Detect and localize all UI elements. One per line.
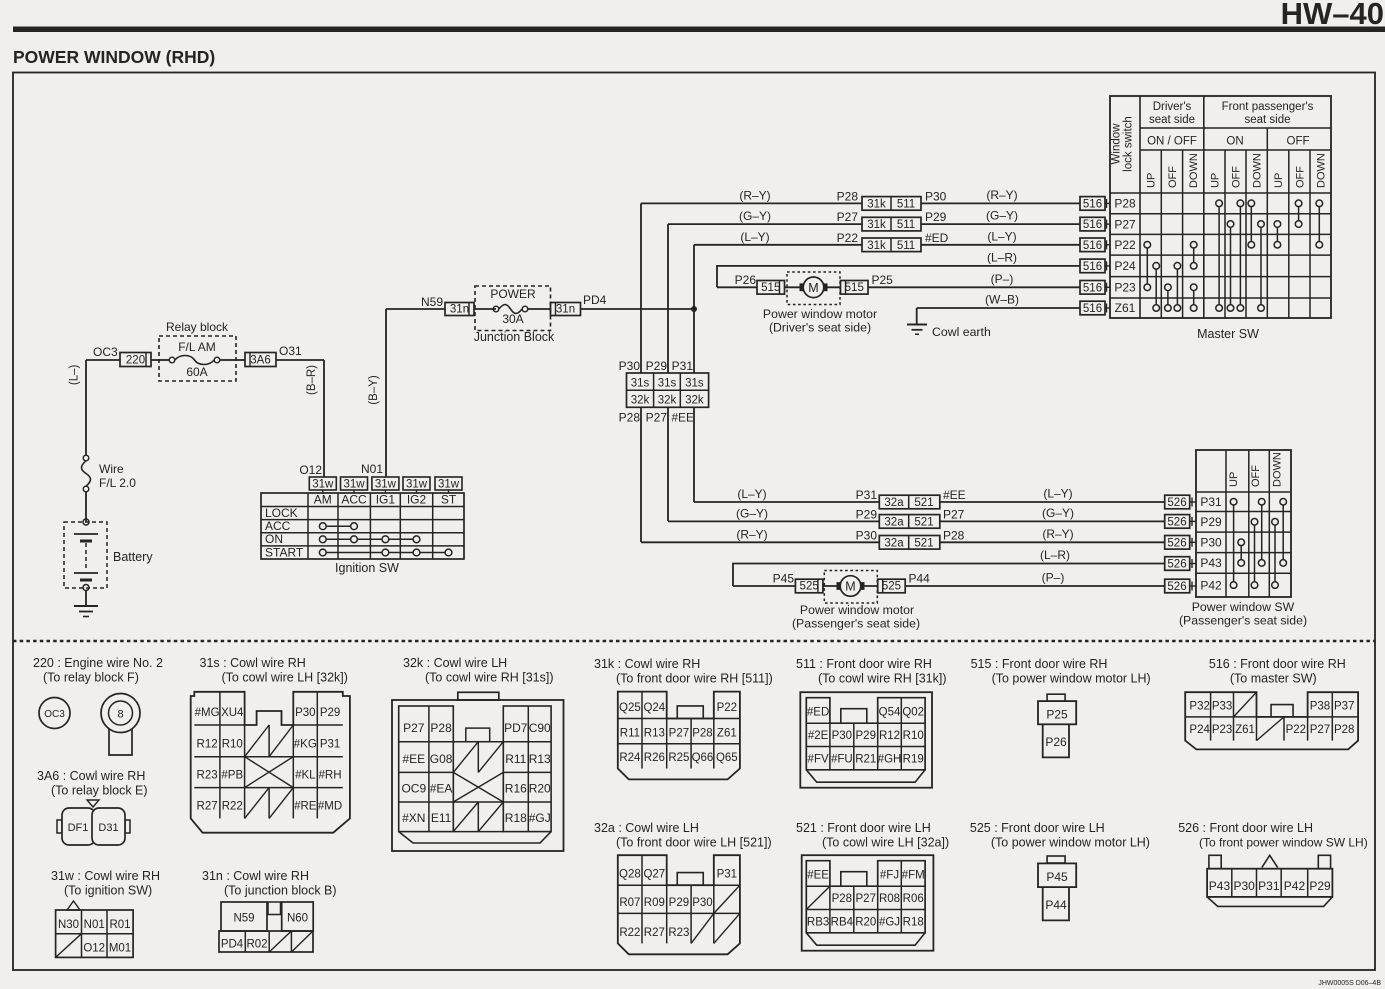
svg-text:(To cowl wire RH [31s]): (To cowl wire RH [31s]) [425,671,554,685]
svg-text:P30: P30 [925,189,947,203]
svg-text:31k : Cowl wire RH: 31k : Cowl wire RH [594,657,700,671]
svg-text:Q54: Q54 [879,707,901,719]
svg-text:(Driver's seat side): (Driver's seat side) [769,321,871,335]
svg-text:POWER WINDOW (RHD): POWER WINDOW (RHD) [13,47,215,67]
svg-text:Q66: Q66 [692,752,714,764]
svg-text:(To relay block E): (To relay block E) [51,784,148,798]
svg-text:Q24: Q24 [643,702,665,714]
svg-text:Battery: Battery [113,550,153,564]
svg-text:PD7: PD7 [504,721,528,735]
svg-text:R21: R21 [855,753,876,765]
svg-text:P30: P30 [295,707,315,719]
svg-text:UP: UP [1146,173,1158,188]
svg-text:(L–R): (L–R) [987,250,1017,264]
svg-text:(To cowl wire LH [32a]): (To cowl wire LH [32a]) [822,836,949,850]
svg-text:P42: P42 [1200,578,1222,592]
svg-text:P29: P29 [1200,515,1222,529]
svg-text:R18: R18 [903,916,924,928]
svg-text:#EE: #EE [943,488,966,502]
svg-text:P31: P31 [856,488,878,502]
svg-text:516: 516 [1083,282,1102,294]
svg-text:516: 516 [1083,303,1102,315]
svg-text:220: 220 [126,354,145,366]
svg-text:R12: R12 [879,730,900,742]
svg-text:526: 526 [1167,516,1186,528]
svg-text:JHW0005S D06–4B: JHW0005S D06–4B [1318,980,1381,987]
svg-text:Cowl earth: Cowl earth [932,325,991,339]
svg-text:P29: P29 [669,897,689,909]
svg-text:31s: 31s [685,378,704,390]
svg-text:31w: 31w [375,479,397,491]
svg-text:P29: P29 [856,730,876,742]
svg-text:220 : Engine wire No. 2: 220 : Engine wire No. 2 [33,656,163,670]
svg-text:LOCK: LOCK [265,506,298,520]
svg-text:UP: UP [1209,173,1221,188]
svg-text:#EA: #EA [430,782,453,796]
svg-text:P26: P26 [1045,735,1067,749]
svg-text:(L–Y): (L–Y) [987,229,1016,243]
svg-text:P30: P30 [619,359,641,373]
svg-text:511: 511 [897,240,915,252]
svg-text:RB4: RB4 [831,916,854,928]
svg-text:R09: R09 [644,897,665,909]
svg-text:(G–Y): (G–Y) [986,209,1018,223]
svg-text:P28: P28 [837,189,859,203]
svg-text:P29: P29 [1309,879,1331,893]
svg-text:#KL: #KL [295,770,316,782]
svg-text:#FU: #FU [831,753,853,765]
svg-text:P28: P28 [1114,197,1136,211]
svg-text:R20: R20 [855,916,876,928]
svg-text:AM: AM [314,493,332,507]
svg-text:(W–B): (W–B) [985,293,1019,307]
svg-text:OC9: OC9 [401,782,426,796]
svg-text:511: 511 [897,198,915,210]
svg-text:P29: P29 [856,507,878,521]
svg-text:seat side: seat side [1149,114,1195,126]
svg-text:R24: R24 [619,752,641,764]
svg-text:P29: P29 [320,707,340,719]
svg-text:P33: P33 [1212,700,1232,712]
svg-text:(To front power window SW LH): (To front power window SW LH) [1199,836,1368,850]
svg-text:P28: P28 [619,411,641,425]
svg-text:511: 511 [897,219,915,231]
svg-text:R22: R22 [222,800,243,812]
svg-text:(G–Y): (G–Y) [1042,506,1074,520]
svg-text:R19: R19 [903,753,924,765]
svg-text:526: 526 [1167,537,1186,549]
svg-text:32a: 32a [884,497,904,509]
svg-text:OFF: OFF [1294,166,1306,188]
svg-text:P27: P27 [1114,217,1136,231]
svg-text:Front passenger's: Front passenger's [1222,101,1314,113]
svg-text:#FM: #FM [902,870,925,882]
svg-text:P30: P30 [692,897,712,909]
svg-text:P32: P32 [1189,700,1209,712]
svg-text:30A: 30A [502,312,523,326]
svg-text:POWER: POWER [490,287,536,301]
svg-text:(L–Y): (L–Y) [737,487,766,501]
svg-text:P27: P27 [943,507,965,521]
svg-text:#2E: #2E [808,730,829,742]
svg-text:Master SW: Master SW [1197,327,1259,341]
svg-text:31w: 31w [343,479,365,491]
svg-text:P27: P27 [669,727,689,739]
svg-text:511 : Front door wire RH: 511 : Front door wire RH [796,657,932,671]
svg-text:RB3: RB3 [807,916,829,928]
svg-text:(To front door wire LH [521]): (To front door wire LH [521]) [616,836,772,850]
svg-text:#FJ: #FJ [880,870,899,882]
svg-text:P23: P23 [1114,281,1136,295]
svg-text:521: 521 [914,537,933,549]
svg-text:C90: C90 [529,721,551,735]
svg-text:P43: P43 [1209,879,1231,893]
svg-text:521: 521 [914,516,933,528]
svg-text:OFF: OFF [1287,136,1310,148]
svg-text:P26: P26 [735,273,757,287]
svg-text:R26: R26 [644,752,665,764]
svg-text:8: 8 [117,709,123,721]
svg-text:3A6 : Cowl wire RH: 3A6 : Cowl wire RH [37,769,145,783]
svg-text:START: START [265,545,304,559]
svg-text:#RH: #RH [319,770,342,782]
svg-text:(To ignition SW): (To ignition SW) [64,884,152,898]
svg-text:Q02: Q02 [902,707,924,719]
svg-text:P37: P37 [1334,700,1354,712]
svg-text:R22: R22 [619,927,640,939]
svg-text:P27: P27 [403,721,425,735]
svg-text:N60: N60 [287,913,308,925]
svg-text:516: 516 [1083,240,1102,252]
svg-text:R13: R13 [529,752,551,766]
svg-text:R07: R07 [619,897,640,909]
svg-text:R06: R06 [903,893,924,905]
svg-text:F/L 2.0: F/L 2.0 [99,476,136,490]
svg-text:(Passenger's seat side): (Passenger's seat side) [1179,614,1307,628]
svg-text:P30: P30 [832,730,852,742]
svg-text:(B–R): (B–R) [306,365,318,395]
svg-text:#FV: #FV [808,753,829,765]
svg-text:Z61: Z61 [1115,301,1136,315]
svg-text:31n: 31n [556,303,575,315]
svg-text:526: 526 [1167,559,1186,571]
svg-text:M: M [808,281,818,295]
svg-text:516: 516 [1083,198,1102,210]
svg-text:OFF: OFF [1167,166,1179,188]
svg-text:N59: N59 [233,913,254,925]
svg-text:E11: E11 [431,811,452,825]
svg-text:525: 525 [800,581,819,593]
svg-text:#GJ: #GJ [529,811,551,825]
svg-text:31s: 31s [631,378,650,390]
svg-text:32k : Cowl wire LH: 32k : Cowl wire LH [403,656,507,670]
svg-text:R20: R20 [529,782,551,796]
svg-text:N59: N59 [421,295,443,309]
svg-text:M: M [845,580,855,594]
svg-text:#RE: #RE [294,800,317,812]
svg-text:(To junction block B): (To junction block B) [224,884,337,898]
svg-text:R02: R02 [246,939,267,951]
svg-text:(To power window motor LH): (To power window motor LH) [991,836,1150,850]
svg-text:#GJ: #GJ [879,916,900,928]
svg-text:ST: ST [441,493,457,507]
svg-text:P27: P27 [837,210,859,224]
svg-text:P29: P29 [925,210,947,224]
svg-text:P23: P23 [1212,724,1232,736]
svg-text:Ignition SW: Ignition SW [335,561,399,575]
svg-text:(L–Y): (L–Y) [1043,487,1072,501]
svg-text:32k: 32k [631,395,650,407]
svg-text:P22: P22 [1114,238,1136,252]
svg-text:P42: P42 [1284,879,1306,893]
svg-text:521 : Front door wire LH: 521 : Front door wire LH [796,821,931,835]
svg-text:#MG: #MG [195,707,220,719]
svg-text:O12: O12 [299,463,322,477]
svg-text:(R–Y): (R–Y) [986,188,1017,202]
svg-text:515: 515 [845,282,864,294]
svg-text:32k: 32k [685,395,704,407]
svg-text:P28: P28 [692,727,712,739]
svg-text:(To cowl wire RH [31k]): (To cowl wire RH [31k]) [818,672,947,686]
svg-text:(To master SW): (To master SW) [1230,672,1317,686]
svg-text:R23: R23 [197,770,218,782]
svg-text:R16: R16 [505,782,527,796]
svg-text:31w: 31w [438,479,460,491]
svg-text:P30: P30 [856,528,878,542]
svg-text:O31: O31 [279,344,302,358]
svg-text:M01: M01 [109,943,131,955]
svg-text:3A6: 3A6 [250,354,270,366]
svg-text:P24: P24 [1189,724,1210,736]
svg-text:P27: P27 [646,411,668,425]
svg-text:Wire: Wire [99,462,124,476]
svg-text:D31: D31 [98,822,118,834]
svg-text:P24: P24 [1114,259,1136,273]
svg-text:PD4: PD4 [221,939,244,951]
svg-text:P31: P31 [672,359,694,373]
svg-text:32a : Cowl wire LH: 32a : Cowl wire LH [594,821,699,835]
svg-text:OC3: OC3 [93,345,118,359]
svg-text:525 : Front door wire LH: 525 : Front door wire LH [970,821,1105,835]
svg-text:R10: R10 [903,730,924,742]
svg-text:31k: 31k [867,240,886,252]
svg-text:P31: P31 [717,869,737,881]
svg-text:Q25: Q25 [619,702,641,714]
svg-text:Q27: Q27 [643,869,665,881]
svg-text:P31: P31 [320,739,340,751]
svg-text:Z61: Z61 [717,727,737,739]
svg-text:P45: P45 [1046,870,1068,884]
svg-text:(B–Y): (B–Y) [368,375,380,405]
svg-text:P28: P28 [430,721,452,735]
svg-text:521: 521 [914,497,933,509]
svg-text:R27: R27 [197,800,218,812]
svg-text:F/L AM: F/L AM [178,340,216,354]
svg-text:(R–Y): (R–Y) [1042,527,1073,541]
svg-text:O12: O12 [83,943,105,955]
svg-text:DOWN: DOWN [1315,153,1327,188]
svg-text:R08: R08 [879,893,900,905]
svg-text:R10: R10 [222,739,243,751]
svg-text:Z61: Z61 [1235,724,1255,736]
svg-text:UP: UP [1273,173,1285,188]
svg-text:(To relay block F): (To relay block F) [43,671,139,685]
svg-text:#ED: #ED [925,231,949,245]
svg-text:R25: R25 [668,752,689,764]
svg-text:P27: P27 [1310,724,1330,736]
svg-text:PD4: PD4 [583,293,607,307]
svg-text:Q65: Q65 [716,752,738,764]
svg-text:P44: P44 [1045,898,1067,912]
svg-text:HW–40: HW–40 [1281,0,1384,31]
svg-text:(G–Y): (G–Y) [736,506,768,520]
svg-text:XU4: XU4 [221,707,244,719]
svg-text:DF1: DF1 [68,822,89,834]
svg-text:32a: 32a [884,516,904,528]
svg-text:#ED: #ED [807,707,829,719]
svg-text:(L–Y): (L–Y) [740,230,769,244]
svg-text:N01: N01 [361,462,383,476]
svg-text:ON: ON [265,532,283,546]
svg-text:#EE: #EE [402,752,425,766]
svg-text:DOWN: DOWN [1272,452,1284,487]
svg-text:R27: R27 [644,927,665,939]
svg-text:#XN: #XN [402,811,425,825]
svg-text:ACC: ACC [265,519,291,533]
svg-text:Relay block: Relay block [166,320,229,334]
svg-text:#PB: #PB [221,770,243,782]
svg-text:OC3: OC3 [44,709,65,720]
svg-text:526 : Front door wire LH: 526 : Front door wire LH [1178,821,1313,835]
svg-text:OFF: OFF [1250,465,1262,487]
svg-text:P22: P22 [717,702,737,714]
svg-text:(To power window motor LH): (To power window motor LH) [992,672,1151,686]
svg-text:(To front door wire RH [511]): (To front door wire RH [511]) [616,672,773,686]
svg-text:Junction Block: Junction Block [474,330,555,344]
svg-text:P22: P22 [837,231,859,245]
svg-text:31w: 31w [406,479,428,491]
svg-text:R13: R13 [644,727,665,739]
svg-text:IG2: IG2 [407,493,427,507]
svg-text:(L–): (L–) [69,365,81,386]
svg-text:UP: UP [1228,472,1240,487]
svg-text:(R–Y): (R–Y) [739,188,770,202]
svg-text:seat side: seat side [1244,114,1290,126]
svg-text:DOWN: DOWN [1252,153,1264,188]
svg-text:ACC: ACC [341,493,367,507]
svg-text:P43: P43 [1200,556,1222,570]
svg-text:31s : Cowl wire RH: 31s : Cowl wire RH [200,656,306,670]
svg-text:P30: P30 [1200,536,1222,550]
svg-text:32k: 32k [658,395,677,407]
svg-text:Q28: Q28 [619,869,641,881]
svg-text:60A: 60A [186,365,207,379]
svg-text:#EE: #EE [671,411,694,425]
svg-text:Power window motor: Power window motor [763,307,877,321]
svg-text:P28: P28 [832,893,852,905]
svg-text:Power window SW: Power window SW [1192,600,1295,614]
svg-text:516: 516 [1083,261,1102,273]
svg-text:516 : Front door wire RH: 516 : Front door wire RH [1209,657,1346,671]
svg-text:31n: 31n [450,303,469,315]
svg-text:R12: R12 [197,739,218,751]
svg-text:P45: P45 [773,572,795,586]
svg-text:(P–): (P–) [991,272,1014,286]
svg-text:(G–Y): (G–Y) [739,209,771,223]
svg-text:R01: R01 [109,919,130,931]
svg-text:P38: P38 [1310,700,1330,712]
svg-text:P25: P25 [872,273,894,287]
svg-text:#GH: #GH [878,753,902,765]
svg-text:31n : Cowl wire RH: 31n : Cowl wire RH [202,869,309,883]
svg-text:31s: 31s [658,378,677,390]
svg-text:Driver's: Driver's [1153,101,1192,113]
svg-text:DOWN: DOWN [1188,153,1200,188]
svg-text:P28: P28 [943,528,965,542]
svg-text:31k: 31k [867,219,886,231]
svg-text:P30: P30 [1233,879,1255,893]
svg-text:(P–): (P–) [1042,571,1065,585]
svg-text:(To cowl wire LH [32k]): (To cowl wire LH [32k]) [222,671,348,685]
svg-text:516: 516 [1083,219,1102,231]
svg-text:P44: P44 [909,572,931,586]
svg-text:32a: 32a [884,537,904,549]
svg-text:G08: G08 [430,752,453,766]
svg-text:P31: P31 [1200,495,1222,509]
svg-text:Power window motor: Power window motor [800,603,914,617]
svg-text:N30: N30 [58,919,79,931]
svg-text:N01: N01 [84,919,105,931]
svg-text:P22: P22 [1286,724,1306,736]
svg-text:#MD: #MD [318,800,342,812]
svg-text:R11: R11 [505,752,526,766]
svg-text:R11: R11 [620,727,640,739]
svg-text:Window: Window [1111,123,1123,165]
svg-text:P28: P28 [1334,724,1354,736]
svg-text:515 : Front door wire RH: 515 : Front door wire RH [971,657,1108,671]
svg-text:525: 525 [882,581,901,593]
svg-text:R23: R23 [668,927,689,939]
svg-text:515: 515 [761,282,780,294]
svg-text:P31: P31 [1258,879,1280,893]
svg-text:(Passenger's seat side): (Passenger's seat side) [792,617,920,631]
svg-text:#KG: #KG [294,739,317,751]
svg-text:ON / OFF: ON / OFF [1147,136,1197,148]
svg-text:ON: ON [1226,136,1243,148]
svg-text:IG1: IG1 [376,493,396,507]
svg-text:P27: P27 [856,893,876,905]
svg-text:#EE: #EE [807,870,829,882]
svg-text:R18: R18 [505,811,527,825]
svg-text:P25: P25 [1046,708,1068,722]
svg-text:31w: 31w [312,479,334,491]
svg-text:526: 526 [1167,497,1186,509]
svg-text:lock switch: lock switch [1123,116,1135,172]
svg-text:31k: 31k [867,198,886,210]
svg-text:(R–Y): (R–Y) [736,527,767,541]
svg-text:31w : Cowl wire RH: 31w : Cowl wire RH [51,869,160,883]
svg-text:526: 526 [1167,581,1186,593]
svg-text:P29: P29 [646,359,668,373]
svg-text:(L–R): (L–R) [1040,548,1070,562]
svg-text:OFF: OFF [1231,166,1243,188]
